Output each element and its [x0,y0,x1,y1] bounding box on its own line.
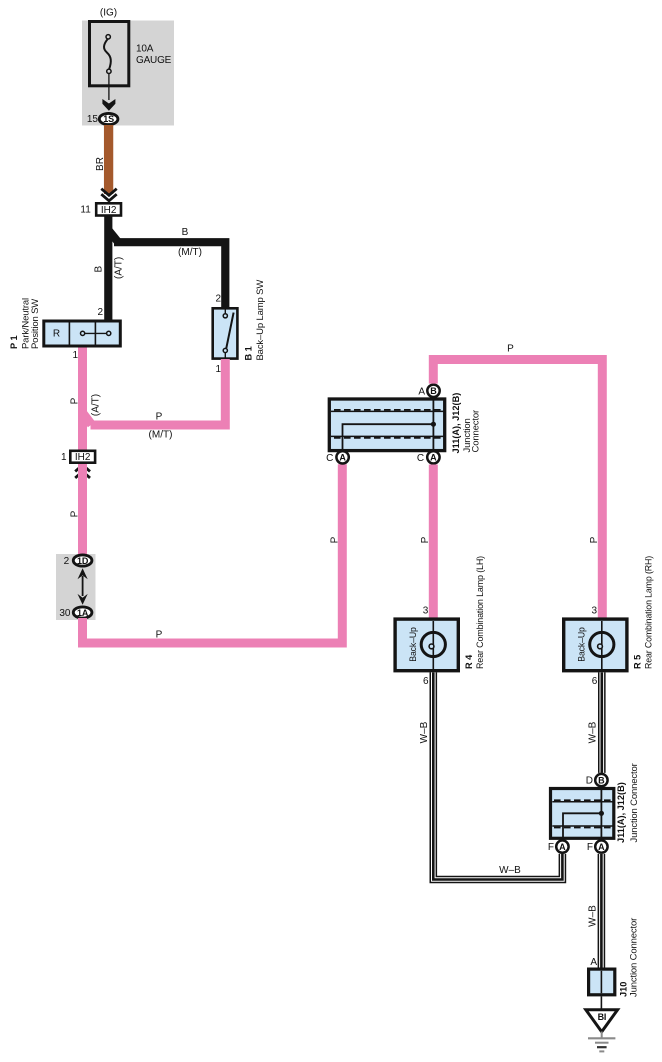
svg-text:IH2: IH2 [75,452,91,463]
svg-text:F: F [548,842,554,853]
svg-text:(IG): (IG) [100,8,117,19]
svg-text:11: 11 [80,205,91,216]
fuse F 10A GAUGE [90,22,129,86]
svg-text:P: P [507,343,514,354]
svg-text:1: 1 [72,350,78,361]
wire fuse output thin lead [108,74,110,101]
wire BR (brown) 1S to IH2 [104,125,113,194]
junction connector J11(A) J12(B) upper [329,399,444,451]
svg-text:A: A [598,842,605,852]
svg-text:3: 3 [591,605,597,616]
wire P J11 B to R5 [433,360,602,620]
svg-text:1A: 1A [77,608,89,618]
svg-text:B: B [430,386,437,396]
svg-text:C: C [417,453,424,464]
svg-text:(M/T): (M/T) [178,247,202,258]
svg-text:15: 15 [87,114,99,125]
wire J10 to ground [600,996,602,1008]
svg-text:A: A [559,842,566,852]
svg-text:Rear Combination Lamp (RH): Rear Combination Lamp (RH) [644,556,655,669]
svg-text:P: P [70,397,81,404]
svg-text:P: P [156,629,163,640]
wire W-B F(A) to J10 [598,854,606,969]
svg-text:B: B [598,775,605,785]
svg-text:GAUGE: GAUGE [136,55,172,66]
svg-text:B 1: B 1 [244,346,254,360]
connector IH2 (top) [96,203,121,216]
svg-text:1: 1 [61,452,67,463]
svg-text:J11(A), J12(B): J11(A), J12(B) [451,393,461,454]
svg-text:10A: 10A [136,44,154,55]
wire branch diagonal [109,231,119,243]
ground triangle BI [586,1010,618,1032]
switch P1 Park/Neutral Position SW [44,321,121,346]
svg-text:BI: BI [598,1012,607,1022]
svg-text:R 5: R 5 [633,655,643,669]
wire B vertical (A/T) IH2 to P1 [104,217,112,322]
svg-text:1: 1 [215,364,221,375]
wire P vertical (A/T) P1 to IH2 [78,348,87,450]
svg-text:Position SW: Position SW [30,299,41,349]
svg-text:A: A [418,387,425,398]
svg-text:1S: 1S [103,114,114,124]
ground symbol [588,1032,615,1052]
svg-text:W–B: W–B [588,905,599,927]
connector 1A [73,607,92,618]
svg-text:P: P [420,536,431,543]
svg-text:P: P [70,510,81,517]
svg-text:Back–Up: Back–Up [408,627,419,662]
junction connector J10 [589,969,615,995]
svg-text:1D: 1D [77,556,89,566]
svg-text:Rear Combination Lamp (LH): Rear Combination Lamp (LH) [475,556,486,669]
internal wire line [82,576,84,596]
splice chevrons below IH2 [75,465,90,478]
lamp R5 Rear Combination Lamp (RH) [564,619,627,671]
svg-text:B: B [182,227,189,238]
svg-text:W–B: W–B [419,721,430,743]
svg-text:Back–Up Lamp SW: Back–Up Lamp SW [255,280,266,361]
svg-text:W–B: W–B [588,721,599,743]
svg-text:6: 6 [423,676,429,687]
svg-text:2: 2 [215,294,221,305]
svg-text:W–B: W–B [499,865,521,876]
wire B horizontal (M/T) to B1 [114,242,225,308]
svg-text:F: F [587,842,593,853]
svg-text:2: 2 [97,307,103,318]
fuse block shaded area [82,21,174,126]
svg-text:R: R [53,329,60,340]
svg-text:P: P [330,536,341,543]
svg-text:J10: J10 [619,982,629,997]
svg-text:P: P [156,411,163,422]
svg-text:2: 2 [64,556,70,567]
svg-text:C: C [326,453,333,464]
svg-text:(A/T): (A/T) [91,394,102,416]
connector 1S [99,113,118,124]
wire W-B R4 to J11 F(A) left [433,672,562,879]
svg-text:(A/T): (A/T) [114,257,125,279]
switch B1 Back-Up Lamp SW [213,308,238,359]
junction connector J11(A) J12(B) lower [551,789,614,839]
splice chevrons into IH2 [101,189,116,201]
internal arrow up [78,568,88,579]
svg-text:3: 3 [423,605,429,616]
svg-text:Back–Up: Back–Up [577,627,588,662]
wire P J11 C(A) to R4 [429,465,438,620]
svg-text:A: A [590,957,597,968]
svg-text:Junction Connector: Junction Connector [629,918,640,997]
svg-text:Connector: Connector [471,410,482,452]
junction block shaded area [56,554,96,620]
svg-text:P 1: P 1 [9,335,19,349]
svg-text:30: 30 [59,608,71,619]
lamp R4 Rear Combination Lamp (LH) [395,619,458,671]
connector 1D [73,555,92,566]
terminal arrow into 1S [102,99,115,111]
svg-text:Junction Connector: Junction Connector [629,763,640,842]
wire junction diagonal [83,413,92,425]
connector IH2 (lower) [70,451,95,463]
internal arrow down [78,594,88,605]
wire W-B R5 to J11 D(B) [598,672,606,773]
svg-text:P: P [589,536,600,543]
svg-text:D: D [586,776,593,787]
wire P IH2 to 1D [78,464,87,556]
svg-text:(M/T): (M/T) [149,430,173,441]
wire P 1A to J11 C(A) [83,464,343,643]
svg-text:BR: BR [95,157,106,171]
svg-text:J11(A), J12(B): J11(A), J12(B) [616,782,626,843]
svg-text:IH2: IH2 [101,205,117,216]
svg-text:A: A [430,453,437,463]
svg-text:6: 6 [592,676,598,687]
svg-text:B: B [94,266,105,273]
svg-text:A: A [339,453,346,463]
wire P from B1 (M/T) [91,359,226,425]
svg-text:R 4: R 4 [464,654,474,669]
